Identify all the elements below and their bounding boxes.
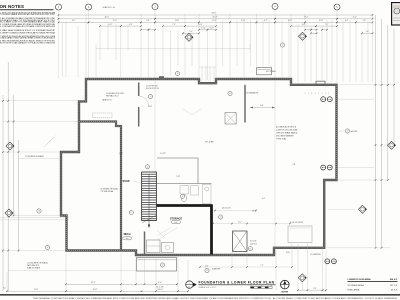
svg-text:14'-8": 14'-8"	[175, 20, 180, 22]
dimension row 5	[141, 29, 149, 31]
svg-text:14'-0": 14'-0"	[148, 106, 152, 108]
svg-text:(3'-2): (3'-2)	[286, 252, 290, 254]
keynote circle 4	[280, 43, 284, 47]
svg-text:10-0 CLG: 10-0 CLG	[250, 244, 258, 246]
storage room walls	[156, 204, 212, 254]
grid bubble 2	[86, 4, 92, 10]
svg-text:2x LEDGER ON 8 CONC: 2x LEDGER ON 8 CONC	[106, 93, 125, 95]
exterior foundation wall	[61, 79, 337, 255]
svg-text:FOUNDATION & LOWER FLOOR PLAN: FOUNDATION & LOWER FLOOR PLAN	[199, 280, 275, 284]
bottom dimension row B	[7, 290, 188, 292]
grid bubble 5	[334, 4, 340, 10]
svg-text:12: 12	[182, 196, 184, 198]
svg-text:12: 12	[38, 211, 40, 213]
grid bubble 3	[152, 4, 158, 10]
svg-text:10'-4": 10'-4"	[212, 20, 217, 22]
svg-text:7'-4": 7'-4"	[172, 24, 176, 26]
svg-text:4x4 POST: 4x4 POST	[351, 131, 358, 133]
svg-text:LOWER FLOOR AREA: LOWER FLOOR AREA	[348, 278, 372, 281]
svg-text:30 X 30 X 12 FTG: 30 X 30 X 12 FTG	[146, 88, 160, 90]
svg-text:6'-4": 6'-4"	[345, 20, 349, 22]
svg-text:A2: A2	[188, 286, 190, 289]
keynote circle 6	[180, 194, 184, 198]
staircase	[142, 172, 157, 221]
svg-text:SCALE: 1/4" = 1'-0": SCALE: 1/4" = 1'-0"	[199, 286, 217, 289]
bath fixture mid	[191, 186, 199, 196]
dimension row 6	[183, 32, 199, 34]
deck line above plan	[96, 48, 250, 50]
bath partition walls	[157, 157, 198, 159]
interior dim line B	[200, 266, 292, 268]
svg-text:3'-0: 3'-0	[3, 288, 6, 290]
svg-text:6'-11": 6'-11"	[108, 24, 113, 26]
svg-text:MECH: MECH	[124, 234, 131, 236]
svg-text:STORAGE: STORAGE	[170, 217, 183, 220]
left dimension lines	[2, 95, 4, 291]
svg-text:30'-4": 30'-4"	[105, 17, 110, 19]
post symbol 6	[332, 259, 337, 264]
svg-text:12: 12	[177, 73, 179, 75]
stamp box top-right corner	[392, 3, 400, 25]
grid line 4	[274, 9, 276, 247]
svg-text:9'-1 1/2": 9'-1 1/2"	[160, 153, 166, 155]
svg-text:4'-6": 4'-6"	[205, 266, 209, 268]
svg-text:12: 12	[249, 248, 251, 250]
svg-text:9'-8": 9'-8"	[72, 20, 76, 22]
bottom center ext lines	[231, 252, 233, 267]
svg-text:7'-10": 7'-10"	[176, 176, 180, 178]
post symbol 4	[327, 165, 332, 170]
svg-text:8'-0": 8'-0"	[158, 282, 162, 284]
svg-text:36 X 12 WELL: 36 X 12 WELL	[266, 71, 276, 73]
svg-text:24'-1 3/4": 24'-1 3/4"	[156, 286, 164, 288]
shelf marks	[304, 92, 306, 95]
keynote circle 7	[129, 210, 133, 214]
svg-text:THE GENERAL CONTRACTOR SHALL V: THE GENERAL CONTRACTOR SHALL VERIFY ALL …	[33, 297, 398, 300]
svg-text:4'-0 X 4'-0 STOOP: 4'-0 X 4'-0 STOOP	[290, 222, 303, 224]
grid line 3	[154, 10, 156, 203]
svg-text:11'-2": 11'-2"	[238, 221, 242, 223]
keynote circle 14	[345, 129, 349, 133]
svg-text:48 S.F.: 48 S.F.	[391, 290, 398, 292]
svg-text:3'-6": 3'-6"	[366, 31, 370, 33]
keynote circle 2	[148, 94, 152, 98]
keynote circle 3	[228, 91, 232, 95]
svg-text:5'-8": 5'-8"	[293, 164, 297, 166]
interior partition D	[138, 83, 140, 97]
svg-text:17'-6": 17'-6"	[113, 20, 118, 22]
post symbol 3	[321, 165, 326, 170]
svg-text:7'-2": 7'-2"	[260, 265, 264, 267]
svg-text:2x3: 2x3	[175, 222, 178, 224]
patio edge lines	[0, 217, 69, 219]
svg-text:2'-10": 2'-10"	[210, 28, 214, 30]
pilaster A	[159, 76, 164, 79]
svg-text:19'-0": 19'-0"	[304, 17, 309, 19]
right dimension lines	[375, 15, 377, 247]
diamond keynote 5	[298, 274, 306, 282]
pilaster B	[316, 81, 325, 85]
interior bearing wall	[79, 122, 121, 251]
svg-text:186 S.F.: 186 S.F.	[389, 279, 397, 281]
dimension row 1 overall	[59, 14, 373, 16]
mech partition wall	[144, 232, 146, 255]
svg-text:6'-9": 6'-9"	[129, 24, 133, 26]
svg-text:8'-10": 8'-10"	[241, 20, 246, 22]
svg-text:2 X 6 MUDSILL: 2 X 6 MUDSILL	[310, 254, 321, 256]
diamond leader mid	[328, 208, 355, 210]
interior dim arrow	[250, 107, 275, 109]
upper room recess	[93, 113, 113, 118]
svg-text:237 S.F.: 237 S.F.	[390, 285, 398, 287]
window well top	[257, 68, 272, 75]
post symbol 2	[327, 97, 332, 102]
svg-text:4'-8": 4'-8"	[146, 20, 150, 22]
keynote circle 5	[145, 165, 149, 169]
diamond keynote 6	[6, 142, 14, 150]
svg-text:5'-0": 5'-0"	[313, 288, 317, 290]
diamond leader bottom	[301, 282, 303, 290]
svg-text:11'-6": 11'-6"	[34, 289, 39, 291]
bath fixtures	[180, 186, 189, 195]
keynote circle 11	[37, 209, 41, 213]
svg-text:12: 12	[229, 93, 231, 95]
furnace unit	[233, 231, 248, 252]
svg-text:10'-8": 10'-8"	[93, 289, 98, 291]
bottom dimension row C	[298, 289, 326, 291]
svg-text:FOUNDATION NOTES: FOUNDATION NOTES	[0, 4, 24, 9]
window well bottom	[137, 258, 177, 272]
svg-text:18'-3": 18'-3"	[91, 282, 96, 284]
svg-text:12: 12	[347, 131, 349, 133]
svg-text:3'-0 CLR: 3'-0 CLR	[250, 241, 257, 243]
diamond keynote 2	[299, 32, 307, 40]
mech equipment	[147, 240, 161, 253]
svg-text:12: 12	[47, 247, 49, 249]
svg-text:34 X 10 BM: 34 X 10 BM	[205, 142, 214, 144]
svg-text:4 X 4 POST ON: 4 X 4 POST ON	[146, 86, 158, 88]
interior dim line C	[215, 210, 256, 212]
grid line 5	[336, 10, 338, 85]
north arrow	[281, 280, 290, 289]
mech door swing	[157, 230, 166, 239]
right extension lines	[338, 84, 396, 86]
svg-text:12: 12	[147, 167, 149, 169]
scale bar	[251, 287, 273, 289]
interior partition C	[244, 85, 246, 123]
bottom dimension row A	[66, 283, 177, 285]
grid line 2	[88, 10, 90, 79]
keynote circle 9	[248, 247, 252, 251]
svg-text:8'-4": 8'-4"	[260, 105, 264, 107]
svg-text:10'-8": 10'-8"	[319, 20, 324, 22]
bottom border rule	[0, 294, 400, 295]
svg-text:6'-1": 6'-1"	[262, 198, 266, 200]
keynote circle 13	[205, 268, 209, 272]
post symbol 1	[321, 97, 326, 102]
grid bubble 1	[56, 4, 62, 10]
svg-text:(14'-0"): (14'-0")	[157, 289, 163, 291]
svg-text:10'-0": 10'-0"	[288, 20, 293, 22]
svg-text:12: 12	[206, 270, 208, 272]
diamond keynote 7	[5, 209, 13, 217]
svg-text:12: 12	[150, 96, 152, 98]
stoop bottom-right	[288, 226, 312, 243]
svg-text:11'-2": 11'-2"	[353, 17, 358, 19]
dimension row 2	[59, 18, 156, 20]
left extension lines	[3, 100, 86, 102]
under-stair slope lines	[158, 228, 178, 241]
svg-text:5'-6": 5'-6"	[363, 20, 367, 22]
svg-text:12: 12	[130, 212, 132, 214]
svg-text:5'-4": 5'-4"	[189, 31, 193, 33]
svg-text:2'-10": 2'-10"	[201, 28, 205, 30]
svg-text:(16'-11 1/2"): (16'-11 1/2")	[222, 208, 231, 210]
chase box	[225, 113, 236, 125]
keynote leader right	[339, 130, 345, 132]
grid line 1	[58, 10, 60, 79]
svg-text:HVAC AREA: HVAC AREA	[348, 289, 360, 292]
dimension row 3	[59, 21, 89, 23]
post symbol 5	[325, 259, 330, 264]
keynote circle 1	[175, 71, 179, 75]
svg-text:12: 12	[162, 265, 164, 267]
diamond keynote 4	[359, 205, 367, 213]
keynote circle 10	[160, 263, 164, 267]
svg-text:STORAGE AREA: STORAGE AREA	[348, 284, 365, 287]
top dimension extension lines	[62, 22, 64, 77]
beam chevron	[183, 109, 192, 115]
exterior steps	[44, 140, 51, 147]
grid bubble 4	[272, 3, 278, 9]
svg-text:6'-2": 6'-2"	[264, 20, 268, 22]
svg-text:12: 12	[282, 45, 284, 47]
svg-text:STAIR: STAIR	[123, 180, 130, 183]
title bubble	[186, 281, 193, 288]
porch door lines	[201, 67, 203, 81]
keynote circle 8	[219, 215, 223, 219]
bottom extension lines	[65, 253, 67, 291]
keynote circle 12	[45, 245, 49, 249]
svg-text:NORTH: NORTH	[281, 292, 288, 294]
interior dim line A	[213, 223, 290, 225]
svg-text:7'-0": 7'-0"	[325, 24, 329, 26]
diamond keynote 1	[185, 33, 193, 41]
dimension row 4	[100, 25, 121, 27]
diamond keynote 3	[388, 141, 396, 149]
svg-text:1x9: 1x9	[126, 238, 129, 240]
svg-text:36'-10": 36'-10"	[212, 17, 218, 19]
svg-text:10'-2": 10'-2"	[119, 153, 123, 155]
svg-text:12: 12	[220, 217, 222, 219]
